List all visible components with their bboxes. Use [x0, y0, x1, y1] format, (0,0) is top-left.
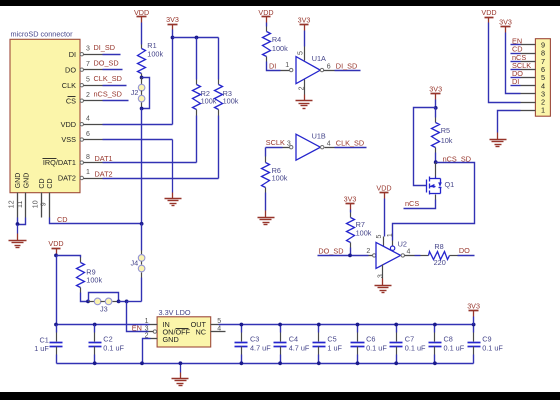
- wire nCS_SD to U2 enable: [393, 163, 475, 241]
- junction J3 right: [117, 300, 121, 304]
- wire VDD to X2 pin2: [489, 23, 521, 103]
- svg-text:DO: DO: [459, 246, 470, 255]
- capacitor C4: [274, 342, 287, 344]
- svg-text:0.1 uF: 0.1 uF: [103, 343, 124, 352]
- junction VDD: [54, 254, 58, 258]
- svg-text:100k: 100k: [86, 275, 102, 284]
- jumper J3: [89, 301, 95, 303]
- junction EN: [125, 300, 129, 304]
- junction C6 bottom: [356, 361, 360, 365]
- capacitor C9: [468, 342, 481, 344]
- microSD connector J1 box: [10, 39, 80, 192]
- wire 3V3 rail (LDO OUT to C9): [219, 324, 474, 326]
- svg-text:C5: C5: [327, 334, 336, 343]
- wire VDD to R1: [141, 23, 143, 45]
- svg-text:VDD: VDD: [376, 184, 391, 193]
- LDO pin 5 (OUT): [211, 324, 219, 326]
- junction C4 bottom: [278, 361, 282, 365]
- LDO pin 1 (IN): [150, 324, 158, 326]
- svg-text:1 uF: 1 uF: [327, 343, 342, 352]
- svg-text:R8: R8: [434, 242, 443, 251]
- svg-text:4.7 uF: 4.7 uF: [250, 343, 271, 352]
- wire DO stub: [458, 255, 475, 257]
- J1 pin 1 (DAT2): [80, 176, 83, 179]
- Q1 drain pin to nCS: [435, 195, 437, 200]
- svg-text:220: 220: [434, 258, 446, 267]
- capacitor C6: [351, 342, 365, 344]
- resistor R2: [193, 85, 201, 110]
- junction R2 top: [195, 36, 199, 40]
- svg-text:8: 8: [86, 154, 90, 161]
- jumper J2 bypass wire: [142, 78, 150, 109]
- top black bar: [0, 0, 560, 6]
- junction J3 left: [86, 300, 90, 304]
- svg-text:2: 2: [366, 248, 370, 255]
- wire 3V3 to junction: [435, 100, 437, 108]
- svg-text:100k: 100k: [223, 96, 239, 105]
- junction C5 top: [317, 323, 321, 327]
- junction ground symbol rail: [179, 361, 183, 365]
- junction C6 top: [356, 323, 360, 327]
- X2 pin 7 stub: [521, 61, 536, 63]
- svg-text:DI: DI: [269, 61, 276, 70]
- wire nCS_SD stub: [103, 100, 129, 102]
- junction C8 bottom: [433, 361, 437, 365]
- U1A pin 1 stub: [281, 70, 290, 72]
- junction C5 bottom: [317, 361, 321, 365]
- junction DO_SD/R7: [348, 254, 352, 258]
- jumper J4: [141, 224, 143, 251]
- svg-text:VSS: VSS: [61, 135, 76, 144]
- svg-text:3V3: 3V3: [467, 301, 480, 310]
- svg-text:1: 1: [387, 233, 394, 237]
- wire 3V3 to Q1 gate: [414, 108, 436, 186]
- wire C1 bottom: [56, 355, 58, 364]
- U2 pin 1 (enable) wire: [392, 241, 394, 247]
- wire C9 top: [473, 325, 475, 333]
- svg-text:C9: C9: [482, 334, 491, 343]
- svg-text:U2: U2: [398, 239, 407, 248]
- voltage regulator U3 (3.3V LDO) box: [157, 317, 211, 347]
- wire nCS stub (X2): [511, 61, 521, 63]
- svg-text:IRQ/DAT1: IRQ/DAT1: [43, 158, 76, 167]
- bottom black bar: [0, 392, 560, 400]
- svg-text:DO_SD: DO_SD: [94, 59, 119, 68]
- svg-text:12: 12: [9, 200, 16, 208]
- wire C2 bottom: [94, 355, 96, 364]
- wire VSS pin6 to ground: [103, 139, 173, 141]
- svg-text:0.1 uF: 0.1 uF: [405, 343, 426, 352]
- svg-text:DAT2: DAT2: [58, 174, 76, 183]
- svg-text:VDD: VDD: [481, 8, 496, 17]
- svg-text:C3: C3: [250, 334, 259, 343]
- wire R3 top: [218, 38, 220, 80]
- svg-text:10k: 10k: [441, 136, 453, 145]
- wire DO_SD: [318, 255, 369, 257]
- J1 pin 12: [17, 193, 19, 218]
- svg-text:VDD: VDD: [48, 239, 63, 248]
- ground U1A: [304, 95, 306, 101]
- svg-text:10: 10: [33, 200, 40, 208]
- J1 pin 4 (VDD): [80, 123, 83, 126]
- wire U2 to R8: [415, 255, 421, 257]
- wire 3V3 stem: [172, 30, 174, 38]
- J1 pin 10 (unconnected): [41, 193, 43, 218]
- wire EN to LDO: [127, 302, 149, 332]
- junction C2 top: [93, 323, 97, 327]
- svg-text:DAT1: DAT1: [95, 154, 113, 163]
- capacitor C5: [313, 342, 326, 344]
- wire CLK_SD stub: [103, 85, 127, 87]
- wire 3V3 to R7: [350, 210, 352, 213]
- svg-text:C2: C2: [103, 334, 112, 343]
- U1A pin 2 (gnd): [304, 80, 306, 95]
- wire J2 to CD net: [141, 109, 143, 224]
- svg-text:VDD: VDD: [258, 8, 273, 17]
- junction LDO GND rail: [140, 361, 144, 365]
- svg-text:microSD connector: microSD connector: [11, 29, 74, 38]
- wire C3 bottom: [241, 355, 243, 364]
- svg-text:11: 11: [17, 201, 24, 208]
- wire C4 top: [280, 325, 282, 333]
- svg-text:4: 4: [407, 249, 411, 256]
- op-amp buffer U1A: [296, 57, 320, 84]
- wire LDO GND to rail: [143, 339, 151, 364]
- svg-text:DI_SD: DI_SD: [94, 43, 116, 52]
- wire J4 to J3 row: [141, 278, 143, 302]
- svg-text:CLK: CLK: [62, 81, 76, 90]
- svg-text:3V3: 3V3: [166, 15, 179, 24]
- wire 3V3 to X2 pin3: [506, 33, 521, 94]
- junction C2 bottom: [93, 361, 97, 365]
- LDO pin 2 (GND): [151, 338, 158, 340]
- resistor R3: [215, 85, 223, 110]
- U2 pin 3 (gnd): [382, 265, 384, 279]
- svg-text:1: 1: [541, 106, 545, 115]
- ground VSS: [172, 193, 174, 199]
- X2 pin 5 stub: [521, 77, 536, 79]
- U2 pin 2 stub: [369, 255, 373, 257]
- svg-text:0.1 uF: 0.1 uF: [444, 343, 465, 352]
- svg-text:DO_SD: DO_SD: [318, 246, 343, 255]
- junction J2 bottom: [140, 107, 144, 111]
- svg-text:GND: GND: [23, 173, 30, 189]
- wire CD pin9: [50, 218, 142, 224]
- capacitor C8: [429, 342, 442, 344]
- R1 bottom pin: [141, 74, 143, 78]
- wire DAT2 to R3: [103, 178, 219, 180]
- wire C1 top: [56, 325, 58, 333]
- svg-text:5: 5: [298, 51, 305, 55]
- J1 pin 11: [25, 193, 27, 218]
- LDO pin 4 (NC): [211, 331, 226, 333]
- resistor R7: [347, 218, 355, 243]
- wire VDD rail (C1,C2 to LDO IN): [57, 324, 150, 326]
- svg-text:CLK_SD: CLK_SD: [336, 138, 364, 147]
- svg-text:100k: 100k: [147, 50, 163, 59]
- svg-text:1: 1: [285, 62, 289, 69]
- svg-text:R5: R5: [441, 126, 450, 135]
- junction CD / J4 column: [140, 222, 144, 226]
- U2 enable bubble: [390, 246, 394, 250]
- wire VDD pin4 to 3V3 column: [103, 124, 173, 126]
- LDO pin 3 (ON/OFF): [153, 330, 156, 333]
- svg-text:3V3: 3V3: [344, 195, 357, 204]
- U2 pin 5 (power): [384, 199, 386, 237]
- svg-text:100k: 100k: [201, 96, 217, 105]
- wire CLK_SD from U1B: [335, 147, 367, 149]
- svg-text:C6: C6: [366, 334, 375, 343]
- wire R2 top: [196, 38, 198, 80]
- wire J3 to EN junction: [119, 301, 127, 303]
- U2 pin 4 output: [401, 254, 404, 257]
- ground X2 pin1: [497, 133, 499, 140]
- svg-text:3: 3: [377, 274, 384, 278]
- svg-text:6: 6: [86, 131, 90, 138]
- ground R6: [265, 211, 267, 218]
- ground J1 GND: [17, 225, 19, 234]
- svg-text:100k: 100k: [272, 44, 288, 53]
- X2 pin 3 stub: [521, 93, 536, 95]
- J1 pin 8 (DAT1): [80, 161, 83, 164]
- svg-text:100k: 100k: [272, 173, 288, 182]
- svg-text:DI_SD: DI_SD: [336, 61, 358, 70]
- U1A pin 6 output: [320, 68, 323, 71]
- wire R7 to DO_SD: [350, 243, 352, 248]
- wire DI stub (X2): [511, 85, 521, 87]
- wire 3V3 rail: [173, 37, 219, 39]
- wire EN junction to J4: [127, 301, 142, 303]
- U1A pin 5 (power): [304, 31, 306, 47]
- X2 pin 4 stub: [521, 85, 536, 87]
- wire R9 to J3: [80, 288, 82, 293]
- svg-text:3V3: 3V3: [499, 18, 512, 27]
- capacitor C1: [50, 342, 63, 344]
- wire DI_SD from U1A: [335, 70, 361, 72]
- svg-text:3V3: 3V3: [298, 15, 311, 24]
- svg-text:4.7 uF: 4.7 uF: [289, 343, 310, 352]
- capacitor C2: [89, 342, 102, 344]
- svg-text:GND: GND: [15, 173, 22, 189]
- svg-text:CD: CD: [47, 178, 54, 188]
- svg-text:CS: CS: [66, 96, 76, 105]
- resistor R5: [432, 123, 440, 148]
- wire C2 top: [94, 325, 96, 333]
- svg-text:C4: C4: [289, 334, 298, 343]
- wire VDD stem: [56, 254, 58, 256]
- svg-text:R4: R4: [272, 35, 281, 44]
- U1B pin 3 stub: [283, 147, 290, 149]
- svg-text:5: 5: [376, 235, 383, 239]
- wire 3V3 to R5: [435, 108, 437, 118]
- svg-text:1 uF: 1 uF: [34, 344, 49, 353]
- wire C4 bottom: [280, 355, 282, 364]
- svg-text:7: 7: [86, 61, 90, 68]
- svg-text:4: 4: [86, 115, 90, 122]
- svg-text:Q1: Q1: [445, 180, 455, 189]
- wire X2 pin1 to ground: [498, 111, 521, 133]
- wire C7 top: [396, 325, 398, 333]
- wire R5 to nCS_SD: [435, 148, 437, 153]
- junction nCS_SD: [434, 160, 438, 164]
- svg-text:VDD: VDD: [134, 8, 149, 17]
- svg-text:nCS: nCS: [405, 199, 419, 208]
- wire C7 bottom: [396, 355, 398, 364]
- svg-text:3: 3: [145, 325, 149, 332]
- svg-text:J2: J2: [131, 88, 139, 97]
- wire DO stub (X2): [511, 77, 521, 79]
- resistor R8: [429, 252, 450, 260]
- junction C3 top: [240, 323, 244, 327]
- resistor R6: [262, 163, 270, 188]
- R8 right pin: [450, 255, 458, 257]
- J1 pin 5 (CLK): [80, 84, 83, 87]
- transistor Q1: [435, 163, 437, 177]
- capacitor C3: [235, 342, 248, 344]
- wire R4 to U1A input: [266, 57, 268, 62]
- svg-text:0.1 uF: 0.1 uF: [482, 343, 503, 352]
- wire R6 to ground: [265, 188, 267, 193]
- svg-text:NC: NC: [195, 328, 206, 337]
- resistor R9: [77, 263, 85, 288]
- junction C8 top: [433, 323, 437, 327]
- op-amp buffer U1B: [296, 134, 320, 160]
- X2 pin 1 stub: [521, 110, 536, 112]
- wire VDD column to IN rail: [56, 256, 58, 325]
- wire C6 top: [357, 325, 359, 333]
- R8 left pin: [421, 255, 429, 257]
- wire SCLK to U1B: [266, 147, 283, 149]
- svg-text:4: 4: [327, 140, 331, 147]
- jumper J3 bypass wire: [89, 293, 119, 302]
- svg-text:6: 6: [327, 63, 331, 70]
- J1 pin 2 (CS): [80, 99, 83, 102]
- svg-text:1: 1: [86, 169, 90, 176]
- wire C9 bottom: [473, 355, 475, 364]
- tri-state buffer U2: [376, 242, 401, 268]
- svg-text:nCS_SD: nCS_SD: [94, 90, 122, 99]
- header X2 box: [535, 39, 550, 117]
- svg-text:C8: C8: [444, 334, 453, 343]
- svg-text:SCLK: SCLK: [266, 138, 285, 147]
- svg-text:2: 2: [298, 86, 305, 90]
- wire SCLK stub (X2): [511, 69, 521, 71]
- wire DO_SD stub: [103, 69, 123, 71]
- J1 pin 7 (DO): [80, 68, 83, 71]
- wire GND pins to ground: [17, 218, 19, 225]
- junction C4 top: [278, 323, 282, 327]
- wire bottom ground rail: [57, 363, 474, 365]
- wire R2 bottom to DAT1: [196, 110, 198, 116]
- junction 3V3/Q1: [434, 106, 438, 110]
- wire DAT1 to R2: [103, 162, 197, 164]
- ground LDO: [180, 364, 182, 373]
- svg-text:CD: CD: [39, 178, 46, 188]
- X2 pin 9 stub: [521, 44, 536, 46]
- svg-text:C1: C1: [39, 335, 48, 344]
- svg-text:DI: DI: [69, 50, 76, 59]
- svg-text:4: 4: [217, 325, 221, 332]
- svg-text:5: 5: [217, 318, 221, 325]
- junction C1 top: [54, 323, 58, 327]
- wire EN stub (X2): [511, 44, 521, 46]
- J1 pin 6 (VSS): [80, 138, 83, 141]
- junction R1/J2 top: [140, 76, 144, 80]
- ground U2: [382, 279, 384, 286]
- svg-text:VDD: VDD: [61, 120, 76, 129]
- svg-text:U1B: U1B: [312, 131, 326, 140]
- svg-text:J4: J4: [130, 259, 138, 268]
- wire CD stub (X2): [511, 53, 521, 55]
- junction C9 top: [472, 323, 476, 327]
- svg-text:5: 5: [86, 76, 90, 83]
- jumper J2: [141, 78, 143, 85]
- wire SCLK to R6: [265, 148, 267, 157]
- junction 3V3 rail: [171, 36, 175, 40]
- svg-text:GND: GND: [163, 335, 179, 344]
- junction C7 bottom: [394, 361, 398, 365]
- wire VDD to R9: [57, 256, 81, 258]
- J1 pin 3 (DI): [80, 53, 83, 56]
- wire R3 bottom to DAT2: [218, 110, 220, 116]
- svg-text:3V3: 3V3: [429, 84, 442, 93]
- svg-text:3: 3: [86, 45, 90, 52]
- wire C6 bottom: [357, 355, 359, 364]
- svg-text:CLK_SD: CLK_SD: [94, 74, 122, 83]
- J1 pin 9: [49, 193, 51, 218]
- wire C5 bottom: [318, 355, 320, 364]
- resistor R4: [263, 32, 271, 57]
- svg-text:3.3V LDO: 3.3V LDO: [159, 308, 191, 317]
- wire 3V3 to C9: [473, 317, 475, 325]
- capacitor C7: [390, 342, 403, 344]
- svg-text:C7: C7: [405, 334, 414, 343]
- X2 pin 6 stub: [521, 69, 536, 71]
- wire VDD to R4: [266, 23, 268, 27]
- junction C3 bottom: [240, 361, 244, 365]
- wire C8 top: [434, 325, 436, 333]
- X2 pin 8 stub: [521, 53, 536, 55]
- wire C8 bottom: [434, 355, 436, 364]
- svg-text:DAT2: DAT2: [95, 169, 113, 178]
- svg-text:CD: CD: [57, 215, 68, 224]
- resistor R1: [138, 49, 146, 74]
- U1B pin 4 output: [321, 146, 324, 149]
- junction GND pins: [16, 222, 20, 226]
- svg-text:DO: DO: [65, 65, 76, 74]
- svg-text:J3: J3: [100, 304, 108, 313]
- svg-text:9: 9: [41, 202, 48, 206]
- wire C3 top: [241, 325, 243, 333]
- X2 pin 2 stub: [521, 102, 536, 104]
- svg-text:0.1 uF: 0.1 uF: [366, 343, 387, 352]
- wire C5 top: [318, 325, 320, 333]
- svg-text:2: 2: [86, 92, 90, 99]
- wire DI_SD stub: [103, 54, 121, 56]
- svg-text:U1A: U1A: [312, 54, 326, 63]
- svg-text:100k: 100k: [356, 229, 372, 238]
- junction C7 top: [394, 323, 398, 327]
